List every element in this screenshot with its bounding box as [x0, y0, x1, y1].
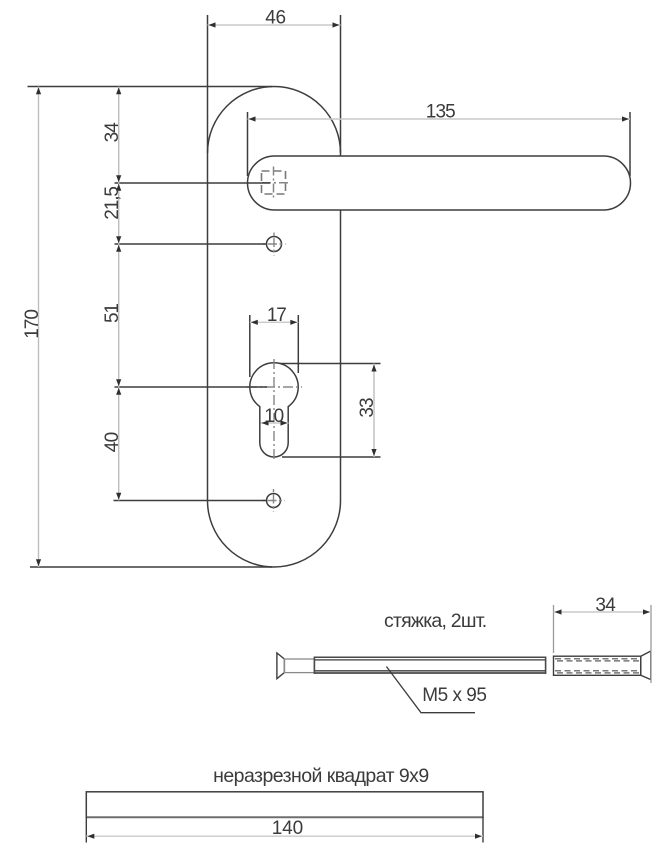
leader top edge	[28, 86, 273, 88]
label неразрезной квадрат 9х9	[213, 765, 428, 787]
label стяжка 2шт	[384, 610, 486, 632]
dimension 170	[22, 87, 43, 568]
dimension 21,5 label	[102, 187, 123, 220]
sleeve thread dashes	[555, 659, 640, 673]
svg-text:40: 40	[102, 432, 123, 452]
dimension 34 label	[102, 122, 123, 143]
centerline top screw hole	[263, 233, 286, 256]
svg-text:170: 170	[22, 310, 43, 339]
centerline spindle	[262, 167, 291, 201]
svg-text:34: 34	[595, 595, 616, 616]
centerline keyhole	[247, 359, 302, 461]
svg-text:51: 51	[102, 304, 123, 323]
leader M5x95	[386, 667, 486, 713]
svg-text:10: 10	[264, 406, 283, 427]
leader bottom edge	[30, 566, 272, 568]
dimension 40 label	[102, 432, 123, 452]
bolt threaded rod	[314, 657, 546, 675]
dimension 140	[86, 817, 483, 843]
bolt shank	[284, 659, 314, 673]
dimension 33	[280, 364, 381, 458]
svg-text:46: 46	[265, 7, 286, 28]
sleeve head	[641, 651, 651, 680]
svg-text:стяжка, 2шт.: стяжка, 2шт.	[384, 610, 486, 632]
svg-text:17: 17	[267, 305, 286, 326]
leader bottom screw	[114, 500, 267, 502]
top screw hole	[267, 237, 282, 252]
dimension 135	[248, 101, 631, 176]
svg-text:неразрезной квадрат 9x9: неразрезной квадрат 9x9	[213, 765, 428, 787]
extension line plate left edge	[207, 15, 209, 153]
leader keyhole center	[115, 386, 268, 388]
extension line plate right edge	[340, 15, 342, 153]
dimension 34 sleeve	[554, 595, 652, 683]
dimension chain line	[116, 87, 121, 501]
svg-text:140: 140	[272, 818, 303, 839]
leader top screw	[115, 243, 267, 245]
spindle square hole (dashed)	[262, 171, 286, 194]
svg-text:М5 x 95: М5 x 95	[422, 685, 486, 706]
svg-text:33: 33	[357, 398, 378, 418]
dimension 17	[250, 305, 298, 377]
bolt head	[277, 653, 285, 679]
plate outline	[208, 87, 341, 568]
sleeve body	[554, 656, 641, 675]
svg-text:135: 135	[426, 101, 455, 122]
dimension 46	[208, 7, 341, 28]
handle outline	[248, 156, 631, 210]
svg-text:21,5: 21,5	[102, 187, 123, 220]
dimension 51 label	[102, 304, 123, 323]
keyhole (euro cylinder)	[250, 363, 298, 457]
dimension 10	[261, 406, 289, 427]
svg-text:34: 34	[102, 122, 123, 143]
square rod	[86, 792, 483, 818]
leader handle center	[115, 182, 271, 184]
bottom screw hole	[267, 494, 281, 508]
centerline bottom screw hole	[262, 489, 285, 512]
